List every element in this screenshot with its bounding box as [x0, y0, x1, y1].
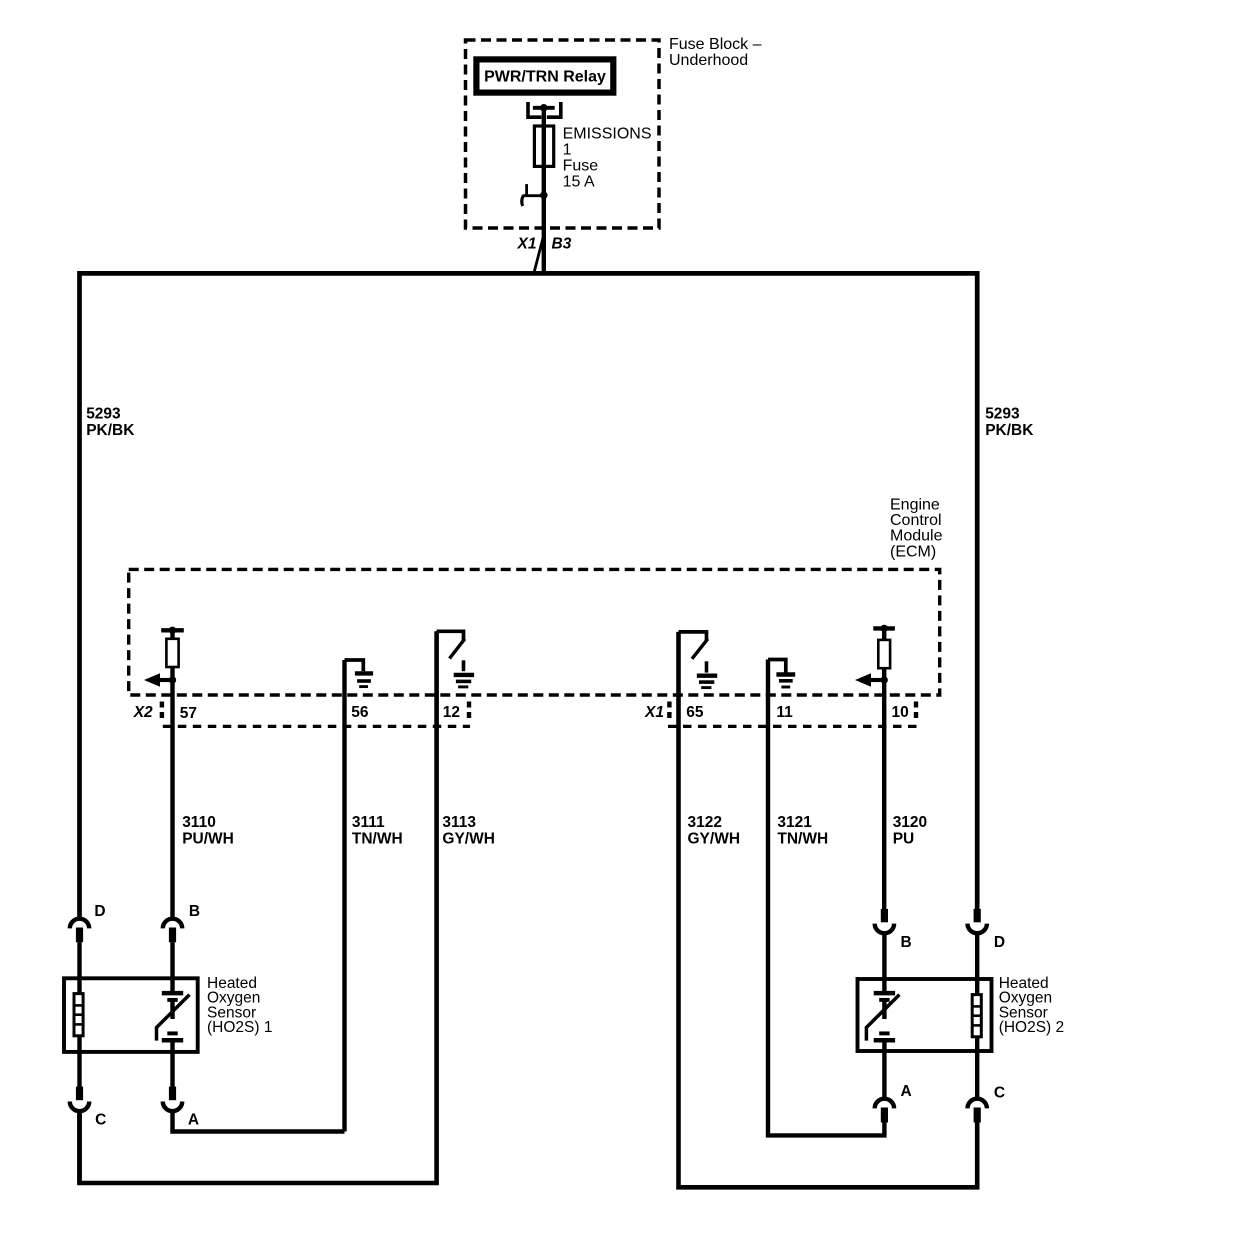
connector separator right of pin 10 — [914, 702, 918, 723]
splice branch stub with hook — [523, 194, 542, 197]
relay PWR/TRN Relay box — [476, 59, 613, 92]
svg-text:D: D — [94, 903, 105, 920]
svg-text:C: C — [95, 1112, 106, 1129]
svg-text:TN/WH: TN/WH — [777, 830, 828, 847]
connector B sensor1 arc and pin — [163, 903, 200, 943]
relay output terminal brackets — [528, 102, 541, 117]
label Engine Control Module (ECM) — [890, 497, 943, 561]
wire sensor2 D lead — [975, 933, 979, 994]
switch to ground at pin 65 inside ECM — [679, 632, 718, 688]
svg-text:PK/BK: PK/BK — [985, 422, 1034, 439]
svg-text:65: 65 — [686, 704, 704, 721]
svg-text:11: 11 — [776, 704, 793, 721]
wire 3111 TN/WH pin 56 down — [342, 660, 346, 1132]
svg-text:D: D — [994, 934, 1005, 951]
relay output terminal T-bar — [533, 106, 555, 110]
svg-text:3111: 3111 — [352, 814, 385, 831]
relay output terminal dot — [540, 104, 548, 112]
ECM connector pin row bottom dashed line left — [163, 725, 470, 728]
svg-text:5293: 5293 — [985, 406, 1020, 423]
svg-text:57: 57 — [180, 705, 197, 722]
svg-text:(HO2S) 1: (HO2S) 1 — [207, 1019, 272, 1036]
svg-text:3121: 3121 — [777, 814, 812, 831]
connector separator right of pin 12 — [467, 702, 471, 723]
svg-text:56: 56 — [351, 704, 369, 721]
wire label 5293 PK/BK right — [985, 406, 1034, 439]
label Fuse Block - Underhood — [669, 36, 762, 69]
connector A sensor2 arc and pin — [875, 1083, 912, 1123]
heater element sensor1 — [74, 994, 83, 1036]
connector C sensor2 arc and pin — [968, 1085, 1006, 1123]
svg-text:B: B — [189, 903, 200, 920]
ground at pin 11 inside ECM — [768, 660, 795, 688]
svg-text:Module: Module — [890, 528, 943, 545]
svg-text:3122: 3122 — [688, 814, 722, 831]
svg-text:Fuse: Fuse — [563, 158, 599, 175]
connector separator X1 — [667, 702, 671, 723]
wire sensor2 B lead — [882, 933, 886, 991]
splice junction dot — [540, 192, 548, 200]
connector D sensor2 pin and cup — [968, 909, 1006, 951]
svg-text:(HO2S) 2: (HO2S) 2 — [999, 1019, 1064, 1036]
wire label 5293 PK/BK left — [86, 406, 135, 439]
svg-text:A: A — [188, 1111, 199, 1128]
fuse EMISSIONS 1 Fuse 15 A — [534, 126, 553, 166]
svg-text:PU: PU — [893, 830, 915, 847]
fuse block Fuse Block - Underhood dashed box — [466, 40, 660, 228]
wire sensor2 C lead — [975, 1036, 979, 1098]
svg-text:PWR/TRN Relay: PWR/TRN Relay — [484, 69, 606, 86]
svg-text:5293: 5293 — [86, 406, 121, 423]
svg-text:Engine: Engine — [890, 497, 940, 514]
wire sensor1 B lead — [170, 942, 174, 991]
svg-text:3113: 3113 — [442, 814, 476, 831]
svg-text:X1: X1 — [644, 704, 664, 721]
wire 3122 GY/WH pin 65 down to bottom loop right — [679, 632, 978, 1187]
connector separator X2 — [160, 702, 164, 723]
sensing cell sensor2 — [866, 993, 899, 1051]
svg-text:10: 10 — [892, 704, 909, 721]
ground at pin 56 inside ECM — [345, 660, 374, 687]
svg-text:X2: X2 — [133, 704, 153, 721]
wire 3113 GY/WH pin 12 down to bottom loop — [80, 631, 437, 1183]
svg-text:3110: 3110 — [182, 814, 216, 831]
wire 3110 PU/WH pin 57 to sensor1 B — [170, 680, 174, 917]
ECM Engine Control Module dashed box — [129, 569, 940, 695]
ECM connector pin row bottom dashed line right — [668, 725, 917, 728]
svg-text:X1: X1 — [517, 236, 537, 253]
wire sensor1 C to bottom loop — [77, 1111, 82, 1183]
resistor heater driver at pin 10 — [855, 625, 895, 687]
svg-text:Underhood: Underhood — [669, 52, 748, 69]
wire sensor2 A lead — [882, 1051, 886, 1098]
connector D sensor1 arc and pin — [70, 903, 106, 943]
wire from relay through fuse to splice — [542, 108, 546, 196]
wire 3121 TN/WH pin 11 down to sensor2 A — [768, 660, 884, 1136]
connector C sensor1 pin and arc — [70, 1087, 107, 1129]
node 5293 top bus — [80, 273, 978, 917]
svg-text:1: 1 — [563, 142, 572, 159]
wire from splice to bus — [542, 195, 546, 273]
HO2S 1 box Heated Oxygen Sensor 1 — [64, 978, 198, 1052]
svg-text:EMISSIONS: EMISSIONS — [563, 126, 652, 143]
HO2S 2 box Heated Oxygen Sensor 2 — [858, 979, 992, 1051]
wire sensor1 A lead — [170, 1052, 174, 1088]
svg-text:B3: B3 — [552, 236, 572, 253]
switch to ground at pin 12 inside ECM — [437, 631, 475, 687]
svg-text:12: 12 — [443, 704, 460, 721]
wire sensor1 C lead — [77, 1035, 81, 1088]
svg-text:Fuse Block –: Fuse Block – — [669, 36, 762, 53]
connector B sensor2 pin and cup — [875, 909, 912, 951]
svg-text:B: B — [901, 934, 912, 951]
svg-text:PK/BK: PK/BK — [86, 422, 135, 439]
svg-text:TN/WH: TN/WH — [352, 830, 403, 847]
connector X1 B3 slash — [534, 231, 545, 272]
svg-text:Control: Control — [890, 512, 942, 529]
svg-text:GY/WH: GY/WH — [442, 830, 495, 847]
sensing cell sensor1 — [157, 993, 190, 1052]
svg-text:15 A: 15 A — [563, 173, 595, 190]
wire sensor1 D lead — [77, 942, 81, 993]
svg-text:GY/WH: GY/WH — [688, 830, 741, 847]
pin labels — [133, 704, 909, 722]
svg-text:A: A — [901, 1083, 912, 1100]
wire sensor1 A to elbow — [173, 1111, 345, 1131]
svg-text:C: C — [994, 1085, 1005, 1102]
svg-text:PU/WH: PU/WH — [182, 830, 234, 847]
connector A sensor1 pin and arc — [163, 1087, 199, 1129]
resistor heater driver at pin 57 — [144, 627, 184, 687]
wire 3120 PU pin 10 to sensor2 B — [882, 680, 886, 910]
svg-text:(ECM): (ECM) — [890, 543, 936, 560]
heater element sensor2 — [972, 995, 981, 1037]
svg-text:3120: 3120 — [893, 814, 927, 831]
